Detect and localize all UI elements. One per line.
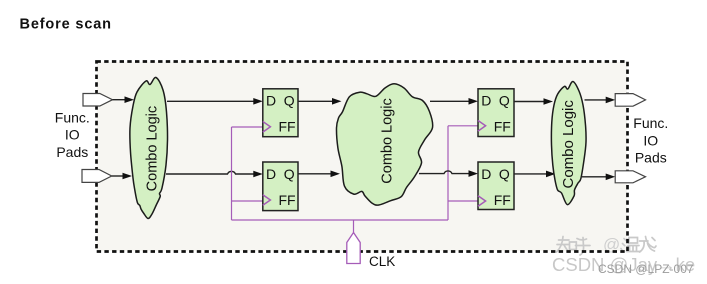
FF1 clock pin triangle (263, 122, 271, 133)
left input pad arrow bottom (82, 170, 112, 183)
label Func. IO Pads right (633, 115, 668, 166)
svg-text:Pads: Pads (56, 144, 88, 160)
wire combo1 to FF1 D (167, 100, 255, 102)
wire FF1 Q to combo2 (298, 100, 333, 102)
combo logic blob U2 (336, 84, 432, 205)
svg-text:CSDN @LPZ-007: CSDN @LPZ-007 (598, 262, 694, 276)
FF4 clock pin triangle (478, 196, 486, 207)
svg-text:D: D (266, 166, 276, 182)
wire CLK horizontal rail (232, 219, 449, 221)
watermark char ge (640, 237, 657, 253)
wire FF2 Q to combo2 (298, 173, 332, 175)
svg-text:FF: FF (494, 119, 511, 135)
wire combo2 to FF3 D (430, 100, 470, 102)
wire pad1 to combo1 (113, 99, 126, 101)
combo logic blob U1 (130, 77, 168, 218)
svg-text:D: D (266, 93, 276, 109)
wire pad2 to combo1 (112, 175, 124, 177)
FF4 body (478, 162, 514, 210)
wire CLK pad riser (353, 220, 355, 233)
svg-text:IO: IO (643, 132, 658, 148)
wire combo3 to pad4 (582, 176, 607, 178)
svg-text:Func.: Func. (55, 110, 90, 126)
svg-text:Before scan: Before scan (20, 17, 112, 33)
chip inner background (97, 62, 627, 251)
watermark zhihu @wenge (557, 237, 657, 256)
flip-flop FF3 (478, 89, 514, 137)
FF2 clock pin triangle (263, 195, 271, 206)
wire FF4 Q to combo3 (514, 173, 547, 175)
wire CLK left riser (231, 127, 233, 220)
wire CLK right riser (447, 126, 449, 220)
dashed chip boundary (97, 62, 628, 252)
svg-text:FF: FF (279, 119, 296, 135)
wire CLK stub to FF3 clock pin (448, 125, 478, 127)
FF1 body (263, 89, 298, 137)
flip-flop FF1 (263, 89, 298, 137)
flip-flop FF4 (478, 162, 514, 210)
CLK clock distribution net (232, 126, 479, 233)
svg-text:D: D (481, 166, 491, 182)
combo logic blob U3 (551, 81, 586, 204)
label Func. IO Pads left (55, 110, 90, 161)
left input pad arrow top (83, 94, 113, 107)
wire combo1 to FF2 D with hop (166, 171, 255, 174)
svg-text:Combo Logic: Combo Logic (379, 98, 395, 183)
svg-text:Q: Q (284, 166, 295, 182)
svg-text:FF: FF (279, 192, 296, 208)
wire CLK stub to FF2 clock pin (232, 200, 263, 202)
svg-text:FF: FF (494, 192, 511, 208)
svg-text:Q: Q (284, 93, 295, 109)
FF3 clock pin triangle (478, 121, 486, 132)
wire CLK stub to FF4 clock pin (448, 200, 478, 202)
wire combo3 to pad3 (585, 99, 607, 101)
wire combo2 to FF4 D with hop (419, 171, 470, 174)
svg-text:D: D (481, 93, 491, 109)
watermark char hu (576, 238, 591, 256)
flip-flop FF2 (263, 162, 298, 211)
CLK pad arrow (347, 233, 360, 264)
right output pad arrow bottom (615, 171, 645, 183)
svg-text:Func.: Func. (633, 115, 668, 131)
watermark char zhi (557, 237, 577, 253)
wire FF3 Q to combo3 (514, 101, 545, 103)
svg-text:Combo Logic: Combo Logic (560, 100, 577, 189)
svg-text:IO: IO (65, 127, 80, 143)
right output pad arrow top (615, 94, 645, 107)
svg-text:Pads: Pads (635, 150, 667, 166)
FF3 body (478, 89, 514, 137)
wire CLK stub to FF1 clock pin (232, 126, 263, 128)
watermark char wen (621, 238, 641, 252)
svg-text:Combo Logic: Combo Logic (145, 106, 161, 191)
svg-text:Q: Q (499, 93, 510, 109)
svg-text:CLK: CLK (369, 254, 395, 269)
FF2 body (263, 162, 298, 211)
svg-text:Q: Q (499, 166, 510, 182)
